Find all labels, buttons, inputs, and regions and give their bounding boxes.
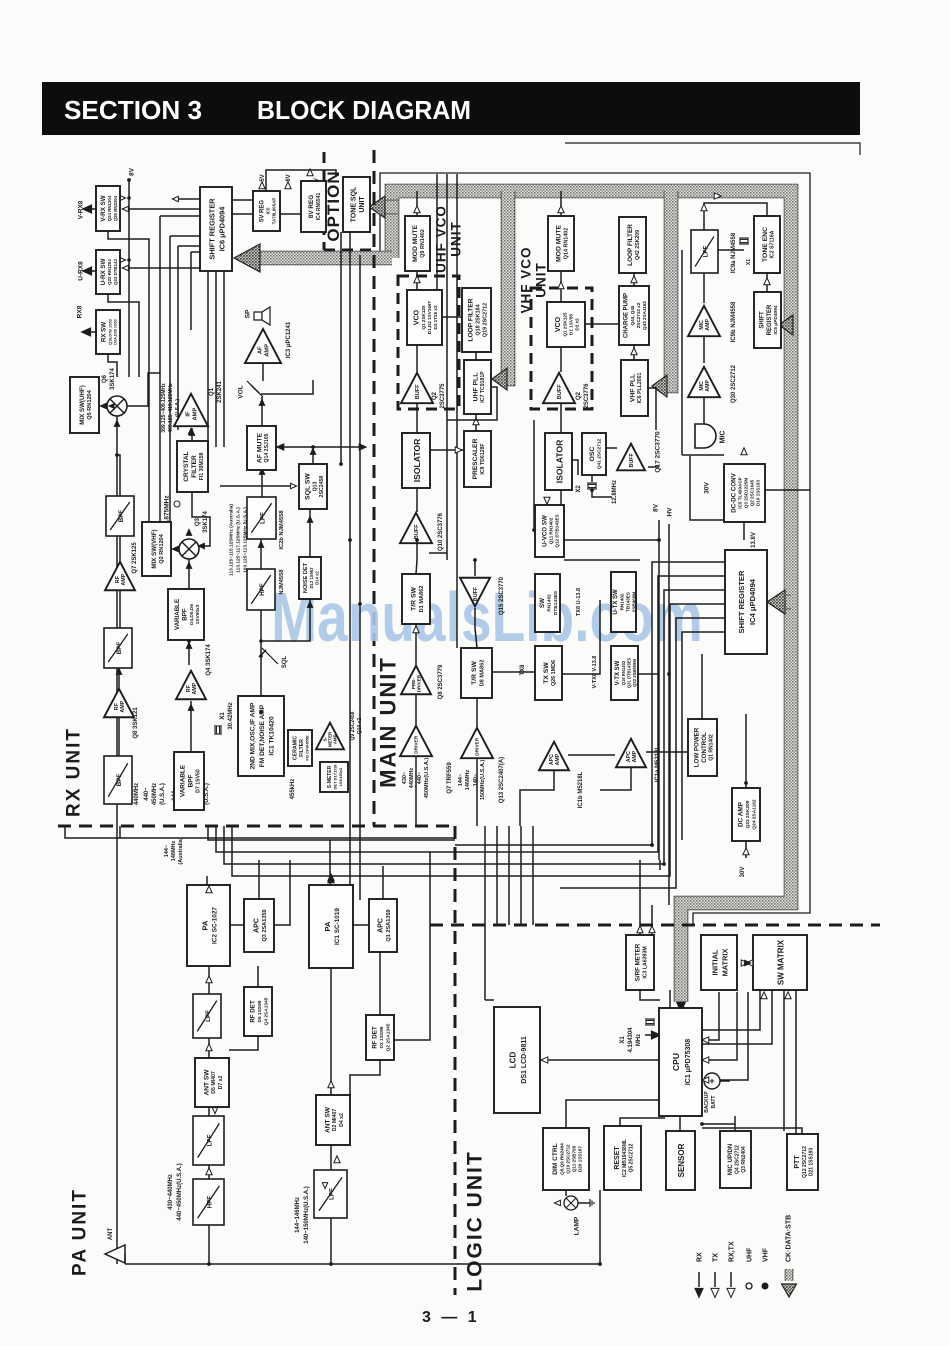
svg-text:440MHz: 440MHz (409, 768, 415, 789)
svg-text:8V: 8V (128, 167, 135, 176)
svg-text:CHARGE PUMP: CHARGE PUMP (624, 293, 630, 338)
svg-text:BPF: BPF (116, 774, 123, 787)
svg-text:Q8,Q9 RN2404: Q8,Q9 RN2404 (559, 1143, 564, 1175)
svg-text:Q2: Q2 (432, 391, 438, 400)
svg-text:RF DET: RF DET (372, 1026, 379, 1049)
svg-text:RN1402: RN1402 (620, 593, 625, 610)
svg-text:HV: HV (666, 507, 673, 517)
svg-text:Q7 2SK125: Q7 2SK125 (132, 542, 138, 574)
svg-text:113.125~117.125MHz (U.S.A.): 113.125~117.125MHz (U.S.A.) (236, 507, 242, 573)
svg-text:D1,D2 1SV166T: D1,D2 1SV166T (427, 301, 432, 335)
svg-text:LPF: LPF (259, 512, 266, 524)
svg-text:X1: X1 (746, 259, 752, 265)
svg-text:LOGIC UNIT: LOGIC UNIT (463, 1150, 486, 1291)
svg-text:IC1 μPD75308: IC1 μPD75308 (685, 1039, 692, 1085)
svg-text:TA78L005AP: TA78L005AP (271, 198, 276, 225)
svg-text:PA: PA (200, 920, 209, 930)
svg-text:CONTROL: CONTROL (701, 732, 708, 763)
svg-text:ANT: ANT (108, 1228, 114, 1241)
svg-text:X1: X1 (220, 712, 226, 720)
svg-text:DRIVER: DRIVER (414, 735, 420, 754)
svg-text:8V REG: 8V REG (308, 195, 315, 218)
svg-text:30V: 30V (740, 867, 746, 878)
svg-text:Q1 RN1402: Q1 RN1402 (709, 734, 715, 761)
svg-text:V-RX8: V-RX8 (77, 200, 84, 219)
svg-text:AF: AF (258, 346, 264, 354)
svg-text:MIX SW(UHF): MIX SW(UHF) (79, 385, 86, 425)
svg-text:IF: IF (186, 411, 192, 417)
svg-text:ANT SW: ANT SW (203, 1069, 210, 1096)
svg-text:MAIN UNIT: MAIN UNIT (376, 656, 401, 788)
svg-text:8V: 8V (652, 503, 659, 512)
svg-text:DS1 LCD-9811: DS1 LCD-9811 (521, 1036, 528, 1084)
svg-text:IC2 S7116A: IC2 S7116A (770, 230, 776, 258)
svg-text:TX8 U-13.8: TX8 U-13.8 (576, 588, 582, 616)
svg-text:Q30 2SC2712: Q30 2SC2712 (731, 364, 737, 403)
svg-text:5V: 5V (260, 174, 266, 181)
svg-text:Q12 DTB143ES: Q12 DTB143ES (555, 514, 560, 547)
svg-text:150MHz(U.S.A.): 150MHz(U.S.A.) (480, 760, 486, 801)
svg-text:IC7 TC9181P: IC7 TC9181P (480, 371, 486, 403)
svg-text:D6 1SS99: D6 1SS99 (257, 1000, 263, 1022)
svg-text:AMP: AMP (705, 319, 711, 331)
svg-text:PA UNIT: PA UNIT (70, 1188, 91, 1276)
svg-text:2ND MIX,OSC,IF AMP: 2ND MIX,OSC,IF AMP (250, 702, 257, 769)
svg-text:Q2 2SC1645: Q2 2SC1645 (750, 479, 755, 506)
svg-text:30V: 30V (703, 482, 710, 494)
svg-text:D1 1SV88: D1 1SV88 (569, 314, 574, 335)
svg-text:RX8: RX8 (76, 305, 83, 318)
svg-text:BATT: BATT (711, 1096, 717, 1109)
svg-text:2SB909M: 2SB909M (632, 592, 637, 613)
svg-text:Q16 RN1402: Q16 RN1402 (621, 660, 626, 685)
svg-text:450MHz: 450MHz (152, 783, 158, 805)
svg-text:UNIT: UNIT (534, 262, 549, 298)
svg-text:Q26 1MD6: Q26 1MD6 (551, 660, 557, 686)
svg-text:D2 x2: D2 x2 (575, 318, 580, 331)
svg-text:MIX SW(VHF): MIX SW(VHF) (151, 529, 158, 568)
svg-text:430~: 430~ (402, 772, 408, 784)
svg-text:144~: 144~ (458, 774, 464, 786)
svg-text:PRE-: PRE- (411, 678, 416, 689)
svg-text:UNIT: UNIT (449, 221, 464, 257)
svg-text:Q7 TRF559: Q7 TRF559 (447, 762, 453, 794)
svg-text:455kHz: 455kHz (290, 779, 296, 800)
svg-text:BUFF: BUFF (414, 524, 420, 539)
svg-text:440~450MHz(U.S.A.): 440~450MHz(U.S.A.) (177, 1163, 183, 1221)
svg-text:Q4 2SC2712: Q4 2SC2712 (734, 1145, 740, 1174)
svg-text:DRIVER: DRIVER (475, 737, 481, 756)
svg-text:Q24 2SA1162: Q24 2SA1162 (751, 799, 757, 829)
svg-text:Q32 2SB909M: Q32 2SB909M (632, 659, 637, 687)
svg-text:113.125~115.125MHz (Australia): 113.125~115.125MHz (Australia) (229, 504, 235, 576)
svg-text:D2 MI407: D2 MI407 (332, 1109, 338, 1132)
svg-text:RF: RF (115, 575, 121, 583)
svg-text:Q2 RN1204: Q2 RN1204 (159, 533, 165, 563)
svg-text:430~440MHz: 430~440MHz (168, 1174, 174, 1210)
svg-text:D13 1S953: D13 1S953 (309, 567, 314, 589)
svg-text:+: + (709, 1076, 714, 1086)
svg-text:AMP: AMP (632, 750, 638, 762)
svg-text:BUFF: BUFF (629, 452, 635, 467)
svg-text:TONE ENC: TONE ENC (762, 227, 769, 262)
svg-text:IC5 TL499ACP: IC5 TL499ACP (738, 477, 743, 508)
svg-text:TONE SQL: TONE SQL (350, 186, 357, 222)
svg-text:IC4 μPD4094: IC4 μPD4094 (748, 578, 757, 625)
svg-text:Q22 RN1204: Q22 RN1204 (107, 259, 112, 285)
svg-text:Q10 2SC3776: Q10 2SC3776 (438, 512, 444, 551)
svg-text:VHF PLL: VHF PLL (629, 374, 636, 402)
svg-text:FI1 30M158: FI1 30M158 (199, 453, 205, 481)
svg-text:IC5 μPD4094: IC5 μPD4094 (773, 305, 779, 334)
svg-text:440~: 440~ (417, 772, 423, 784)
svg-text:Q3 2SD1225M: Q3 2SD1225M (744, 478, 749, 509)
svg-text:Q25 RN2204: Q25 RN2204 (113, 195, 118, 221)
svg-text:IC2 SC-1027: IC2 SC-1027 (212, 907, 219, 944)
svg-text:SHIFT REGISTER: SHIFT REGISTER (737, 570, 746, 633)
svg-text:BUFF: BUFF (473, 586, 479, 601)
svg-text:IC8 TD6128F: IC8 TD6128F (480, 443, 486, 474)
svg-text:Q13: Q13 (312, 481, 318, 491)
svg-text:SQL SW: SQL SW (305, 473, 312, 500)
svg-text:Q9 RN1402: Q9 RN1402 (420, 229, 426, 257)
svg-text:12.8MHz: 12.8MHz (612, 480, 618, 504)
svg-text:1SS193x2: 1SS193x2 (338, 767, 343, 786)
svg-text:2SK241: 2SK241 (217, 380, 223, 402)
svg-text:MOD MUTE: MOD MUTE (412, 225, 419, 262)
svg-text:D10 1SS193: D10 1SS193 (756, 480, 761, 506)
svg-text:IC9b NJM4558: IC9b NJM4558 (731, 301, 737, 342)
svg-text:Q4 3SK174: Q4 3SK174 (206, 644, 212, 676)
svg-text:RESET: RESET (614, 1146, 621, 1170)
svg-text:146MHz: 146MHz (465, 770, 471, 791)
svg-text:Q13 2SC2407(A): Q13 2SC2407(A) (499, 757, 505, 803)
svg-text:(U.S.A.): (U.S.A.) (160, 783, 166, 805)
svg-text:Q3: Q3 (195, 517, 201, 526)
svg-text:IC6 PLL2001: IC6 PLL2001 (637, 372, 643, 403)
svg-text:OSC: OSC (589, 447, 596, 462)
svg-text:D21 1SS193: D21 1SS193 (808, 1148, 814, 1177)
svg-text:UHF: UHF (746, 1247, 753, 1262)
svg-text:VARIABLE: VARIABLE (180, 764, 187, 797)
svg-text:AMP: AMP (120, 700, 126, 712)
svg-text:RF: RF (114, 702, 120, 710)
svg-text:V-RX SW: V-RX SW (100, 195, 107, 221)
svg-text:AMP: AMP (555, 753, 561, 765)
svg-text:BUFF: BUFF (415, 384, 421, 399)
svg-text:3SK174: 3SK174 (110, 367, 116, 389)
svg-text:LOOP FILTER: LOOP FILTER (627, 224, 634, 266)
svg-text:13.8V: 13.8V (751, 532, 757, 548)
svg-text:VOL: VOL (237, 385, 244, 398)
svg-text:Q11 RN1402: Q11 RN1402 (549, 517, 554, 544)
svg-text:LAMP: LAMP (573, 1216, 580, 1235)
svg-text:TB143ES: TB143ES (626, 592, 631, 612)
svg-text:DTB143ES: DTB143ES (553, 590, 559, 615)
svg-text:SENSOR: SENSOR (677, 1143, 686, 1177)
svg-text:IC3 μPC1241: IC3 μPC1241 (286, 321, 292, 358)
svg-text:SHIFT: SHIFT (759, 311, 765, 329)
svg-text:RX SW: RX SW (101, 322, 108, 342)
svg-text:Q1 2SA1359: Q1 2SA1359 (386, 909, 392, 941)
svg-text:TX SW: TX SW (543, 662, 550, 684)
svg-text:8V: 8V (286, 174, 292, 181)
svg-text:DRIVER: DRIVER (416, 674, 421, 692)
svg-text:Q31 DTB143ES: Q31 DTB143ES (626, 658, 631, 688)
svg-text:2SC3776: 2SC3776 (584, 383, 590, 409)
svg-text:2SC2712 x2: 2SC2712 x2 (636, 302, 641, 328)
svg-text:IC9a NJM4558: IC9a NJM4558 (731, 232, 737, 273)
svg-text:Q15 2SC3770: Q15 2SC3770 (499, 576, 505, 615)
svg-text:D1 MA862: D1 MA862 (419, 586, 425, 613)
svg-text:FI2 CFW455E: FI2 CFW455E (305, 735, 310, 761)
svg-text:SW: SW (539, 598, 546, 608)
svg-text:CRYSTAL: CRYSTAL (183, 451, 190, 481)
svg-text:Q5 RN1204: Q5 RN1204 (87, 389, 93, 419)
svg-text:Q1 2SK125: Q1 2SK125 (421, 305, 426, 329)
svg-text:BLOCK DIAGRAM: BLOCK DIAGRAM (257, 95, 471, 125)
svg-text:AMP: AMP (192, 408, 198, 421)
svg-text:3SK174: 3SK174 (203, 510, 209, 532)
svg-text:(Australia): (Australia) (178, 837, 184, 864)
svg-text:LPF: LPF (328, 1188, 335, 1200)
svg-text:SHIFT REGISTER: SHIFT REGISTER (207, 198, 216, 260)
svg-text:D5 MI407: D5 MI407 (211, 1071, 217, 1094)
svg-text:Q11 2SB798: Q11 2SB798 (571, 1145, 576, 1172)
svg-text:REGISTER: REGISTER (767, 304, 773, 335)
svg-text:Q1 2SK125: Q1 2SK125 (563, 312, 568, 336)
svg-text:U-VCO SW: U-VCO SW (541, 515, 548, 547)
svg-text:Q42 2SK209: Q42 2SK209 (635, 230, 641, 260)
svg-text:PA: PA (323, 921, 332, 931)
svg-text:X2: X2 (576, 485, 582, 493)
svg-text:Q6: Q6 (102, 374, 108, 383)
svg-text:D7 x2: D7 x2 (218, 1075, 224, 1089)
svg-text:399.125~409.125MHz: 399.125~409.125MHz (161, 383, 167, 433)
svg-text:AF MUTE: AF MUTE (256, 432, 263, 463)
svg-text:D4,D5,D6: D4,D5,D6 (189, 604, 195, 625)
svg-text:S/RF METER: S/RF METER (635, 943, 642, 981)
svg-text:2SC2458: 2SC2458 (319, 476, 325, 498)
svg-text:Q18 2SK184: Q18 2SK184 (476, 304, 482, 335)
svg-text:MIC UP/DN: MIC UP/DN (728, 1144, 734, 1175)
svg-text:140~150MHz(U.S.A.): 140~150MHz(U.S.A.) (304, 1186, 310, 1244)
svg-text:Q9 2SC2458: Q9 2SC2458 (350, 711, 356, 740)
svg-text:PRESCALER: PRESCALER (472, 438, 479, 479)
svg-text:U-TX SW: U-TX SW (613, 589, 619, 615)
svg-text:Q10 2SC2712: Q10 2SC2712 (565, 1144, 570, 1174)
svg-text:AMP: AMP (121, 573, 127, 585)
svg-text:30.42MHz: 30.42MHz (228, 702, 234, 729)
svg-text:Q14 2SJ105: Q14 2SJ105 (264, 433, 270, 462)
svg-text:SW MATRIX: SW MATRIX (777, 939, 786, 985)
svg-text:Q3 RN2404: Q3 RN2404 (741, 1146, 747, 1173)
svg-text:409.125~419.125MHz: 409.125~419.125MHz (168, 383, 174, 433)
svg-text:D20 1SS187: D20 1SS187 (577, 1146, 582, 1172)
svg-text:RF: RF (186, 684, 192, 692)
svg-text:Q2 2SA1345: Q2 2SA1345 (385, 1023, 391, 1051)
svg-text:RX: RX (696, 1252, 703, 1262)
svg-text:CPU: CPU (671, 1053, 681, 1071)
svg-text:BACKUP: BACKUP (704, 1091, 710, 1113)
svg-text:LOW POWER: LOW POWER (693, 727, 700, 767)
svg-text:2SC3775: 2SC3775 (440, 383, 446, 409)
svg-text:Q2: Q2 (576, 391, 582, 400)
svg-text:DIM CTRL: DIM CTRL (552, 1143, 559, 1175)
svg-text:D2A,D28 1S53: D2A,D28 1S53 (114, 319, 118, 345)
svg-text:DC-DC CONV: DC-DC CONV (730, 472, 737, 512)
svg-text:LPF: LPF (702, 245, 709, 257)
svg-text:ANT SW: ANT SW (324, 1106, 331, 1133)
svg-text:ManualsLib.com: ManualsLib.com (271, 579, 702, 657)
svg-text:Q5 2SC2712: Q5 2SC2712 (628, 1143, 634, 1172)
svg-text:IC1 SC-1019: IC1 SC-1019 (334, 908, 341, 945)
svg-text:D4 x2: D4 x2 (339, 1113, 345, 1127)
svg-text:VARIABLE: VARIABLE (174, 599, 181, 630)
svg-text:FILTER: FILTER (191, 455, 198, 478)
svg-text:Q4 2SA1345: Q4 2SA1345 (263, 997, 269, 1025)
svg-text:VHF: VHF (762, 1247, 769, 1262)
svg-text:AMP: AMP (333, 734, 338, 744)
svg-text:MATRIX: MATRIX (720, 949, 729, 977)
svg-text:5V REG: 5V REG (259, 200, 265, 222)
svg-text:IC1 TK10420: IC1 TK10420 (269, 716, 276, 756)
svg-text:Q8 2SC3779: Q8 2SC3779 (438, 664, 444, 699)
svg-text:INITIAL: INITIAL (710, 949, 719, 975)
svg-text:NJM4558: NJM4558 (279, 569, 285, 595)
svg-text:144~146MHz: 144~146MHz (295, 1197, 301, 1233)
svg-text:144~: 144~ (164, 845, 170, 857)
svg-text:140~: 140~ (473, 774, 479, 786)
svg-text:(U.S.A.): (U.S.A.) (204, 783, 210, 805)
svg-text:Q43 2SA1162: Q43 2SA1162 (642, 301, 647, 330)
svg-text:RX UNIT: RX UNIT (64, 727, 85, 817)
svg-text:Q3 2SA1359: Q3 2SA1359 (262, 909, 268, 941)
svg-text:TX: TX (712, 1253, 719, 1262)
svg-text:Q24 RN1204: Q24 RN1204 (107, 195, 112, 221)
svg-text:D3 1SS99: D3 1SS99 (379, 1026, 385, 1048)
svg-text:AMP: AMP (264, 344, 270, 357)
svg-text:D7 1SV50: D7 1SV50 (195, 769, 201, 793)
svg-text:IC6 μPD4094: IC6 μPD4094 (217, 206, 226, 252)
svg-text:Q41 2SC2712: Q41 2SC2712 (597, 438, 603, 469)
svg-text:PTT: PTT (794, 1155, 801, 1169)
svg-text:440MHz: 440MHz (134, 783, 140, 805)
svg-text:Q18,D7B 1S53: Q18,D7B 1S53 (108, 319, 112, 345)
svg-text:MIC: MIC (719, 431, 726, 444)
svg-text:BUFF: BUFF (557, 384, 563, 399)
svg-text:Q14 RN1402: Q14 RN1402 (564, 228, 570, 259)
svg-text:LCD: LCD (509, 1052, 518, 1069)
svg-text:MHz: MHz (636, 1034, 642, 1046)
svg-text:MOD MUTE: MOD MUTE (556, 225, 563, 262)
svg-text:U-RX8: U-RX8 (77, 261, 84, 281)
svg-text:Q19 2SC2712: Q19 2SC2712 (483, 303, 489, 337)
svg-text:148MHz: 148MHz (171, 841, 177, 862)
svg-text:Q12 2SC2712: Q12 2SC2712 (802, 1146, 808, 1178)
svg-text:RX,TX: RX,TX (728, 1241, 735, 1262)
svg-text:VHF VCO: VHF VCO (519, 246, 534, 313)
svg-text:IC2b NJM4558: IC2b NJM4558 (279, 510, 285, 550)
svg-text:Q8 3SK121: Q8 3SK121 (133, 707, 139, 739)
svg-text:CERAMIC: CERAMIC (292, 736, 298, 760)
svg-text:ISOLATOR: ISOLATOR (554, 439, 564, 483)
svg-text:IC1a M5218L: IC1a M5218L (655, 745, 661, 782)
svg-text:Q23 2SK209: Q23 2SK209 (745, 800, 751, 828)
svg-text:APC: APC (254, 918, 261, 933)
svg-text:APC: APC (378, 918, 385, 933)
svg-text:T/R SW: T/R SW (471, 661, 478, 685)
svg-text:Q44, Q45: Q44, Q45 (630, 305, 635, 325)
svg-text:450MHz(U.S.A.): 450MHz(U.S.A.) (424, 758, 430, 799)
svg-text:ISOLATOR: ISOLATOR (412, 438, 422, 482)
svg-text:SQL: SQL (282, 656, 288, 669)
svg-text:SP: SP (244, 309, 251, 318)
svg-text:Q1: Q1 (209, 387, 215, 396)
svg-text:DC AMP: DC AMP (738, 801, 745, 827)
svg-text:AMP: AMP (192, 682, 198, 694)
svg-text:3 — 1: 3 — 1 (422, 1309, 480, 1326)
svg-text:IC1b M5218L: IC1b M5218L (578, 771, 584, 808)
svg-text:U-RX SW: U-RX SW (100, 258, 107, 285)
svg-text:4.194304: 4.194304 (628, 1027, 634, 1053)
svg-text:FM DET,NOISE AMP: FM DET,NOISE AMP (259, 704, 266, 767)
svg-text:RF DET: RF DET (250, 1000, 257, 1023)
svg-text:LPF: LPF (206, 1134, 213, 1146)
svg-text:1SV50x3: 1SV50x3 (195, 604, 201, 624)
svg-text:TX8: TX8 (520, 664, 526, 676)
svg-text:D14 x2: D14 x2 (314, 571, 319, 585)
svg-text:IC2 MB19438ML: IC2 MB19438ML (622, 1139, 628, 1177)
svg-text:D8 MA862: D8 MA862 (479, 660, 485, 687)
svg-text:D3 1T25 x2: D3 1T25 x2 (433, 305, 438, 329)
svg-text:IC4 RN6541: IC4 RN6541 (316, 193, 322, 221)
svg-text:BPF: BPF (181, 608, 188, 621)
svg-text:Q17 2SC3770: Q17 2SC3770 (654, 431, 661, 473)
svg-text:Q23 DTB143: Q23 DTB143 (113, 259, 118, 285)
svg-text:440~: 440~ (144, 787, 150, 801)
svg-text:X1: X1 (620, 1036, 626, 1044)
svg-text:DET D17,D18: DET D17,D18 (332, 764, 337, 790)
svg-text:UNIT: UNIT (359, 196, 366, 213)
svg-text:V-TX8 V-13.8: V-TX8 V-13.8 (592, 656, 598, 689)
svg-text:T/R SW: T/R SW (411, 587, 418, 611)
svg-text:LPF: LPF (205, 1010, 212, 1022)
svg-text:CK·DATA·STB: CK·DATA·STB (785, 1215, 792, 1262)
svg-text:BPF: BPF (188, 775, 195, 788)
svg-text:IC3 LA6393M: IC3 LA6393M (642, 946, 648, 978)
svg-text:IC5: IC5 (266, 207, 271, 214)
svg-text:UHF PLL: UHF PLL (472, 373, 479, 402)
svg-text:LOOP FILTER: LOOP FILTER (468, 298, 475, 341)
svg-text:VCO: VCO (414, 309, 421, 325)
svg-text:VCO: VCO (555, 316, 562, 332)
svg-text:Q10 x2: Q10 x2 (357, 718, 363, 735)
svg-text:RN1402: RN1402 (547, 594, 553, 612)
svg-text:AMP: AMP (705, 380, 711, 392)
svg-text:SECTION 3: SECTION 3 (64, 95, 202, 125)
